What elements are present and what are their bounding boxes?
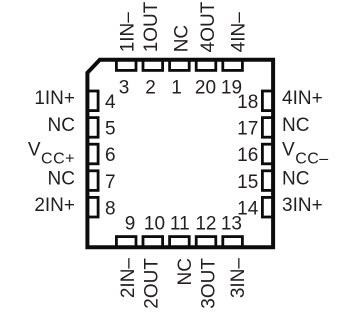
svg-text:2IN–: 2IN–	[118, 258, 139, 299]
svg-text:3IN–: 3IN–	[228, 258, 249, 299]
svg-text:12: 12	[195, 214, 216, 235]
svg-text:NC: NC	[48, 168, 75, 189]
svg-text:5: 5	[105, 119, 116, 140]
svg-text:NC: NC	[282, 168, 309, 189]
svg-text:10: 10	[144, 214, 165, 235]
svg-text:3IN+: 3IN+	[282, 195, 323, 216]
svg-text:8: 8	[105, 198, 116, 219]
svg-text:4: 4	[105, 92, 116, 113]
svg-text:1OUT: 1OUT	[141, 1, 162, 52]
svg-text:2OUT: 2OUT	[141, 258, 162, 309]
svg-text:NC: NC	[172, 25, 193, 52]
svg-text:15: 15	[237, 172, 258, 193]
svg-text:20: 20	[195, 77, 216, 98]
svg-text:9: 9	[125, 214, 136, 235]
svg-text:VCC+: VCC+	[28, 140, 75, 168]
svg-text:7: 7	[105, 172, 116, 193]
svg-text:18: 18	[237, 92, 258, 113]
svg-text:3: 3	[119, 77, 130, 98]
svg-text:4IN+: 4IN+	[282, 88, 323, 109]
svg-text:4OUT: 4OUT	[198, 1, 219, 52]
svg-text:VCC–: VCC–	[282, 140, 329, 168]
svg-text:4IN–: 4IN–	[228, 12, 249, 53]
svg-text:6: 6	[105, 145, 116, 166]
svg-text:NC: NC	[48, 115, 75, 136]
svg-text:NC: NC	[282, 115, 309, 136]
svg-text:11: 11	[170, 214, 190, 235]
svg-text:2: 2	[145, 77, 156, 98]
svg-text:NC: NC	[175, 258, 196, 285]
svg-text:3OUT: 3OUT	[199, 258, 220, 309]
svg-text:16: 16	[237, 145, 258, 166]
svg-text:14: 14	[237, 198, 259, 219]
svg-text:1IN–: 1IN–	[118, 12, 139, 53]
svg-text:1IN+: 1IN+	[34, 88, 75, 109]
svg-text:1: 1	[171, 77, 182, 98]
svg-text:2IN+: 2IN+	[34, 195, 75, 216]
svg-text:17: 17	[237, 119, 258, 140]
